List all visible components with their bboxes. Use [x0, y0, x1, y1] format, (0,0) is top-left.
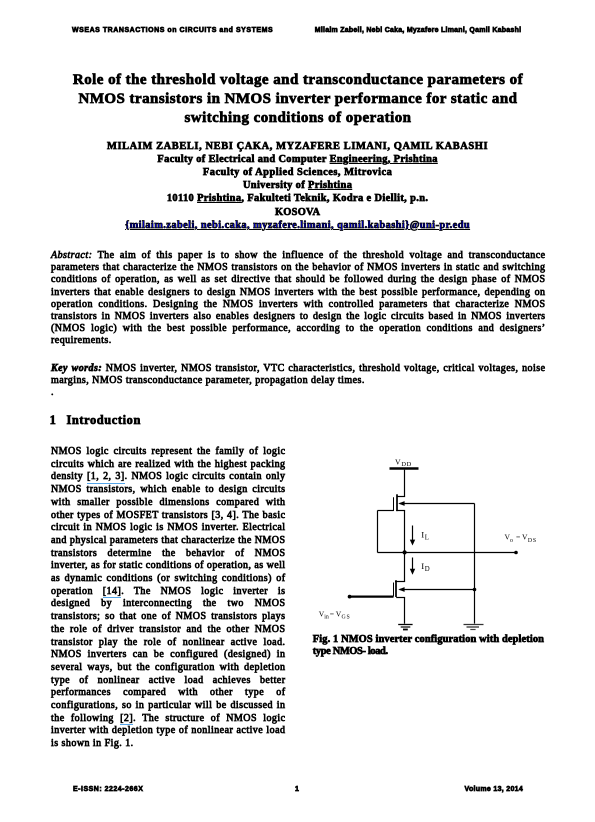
svg-text:IL: IL	[421, 529, 429, 541]
svg-text:VDD: VDD	[395, 458, 412, 469]
svg-text:Vin= VGS: Vin= VGS	[319, 609, 351, 620]
svg-text:Vo = VDS: Vo = VDS	[505, 533, 537, 544]
svg-text:ID: ID	[421, 561, 429, 573]
